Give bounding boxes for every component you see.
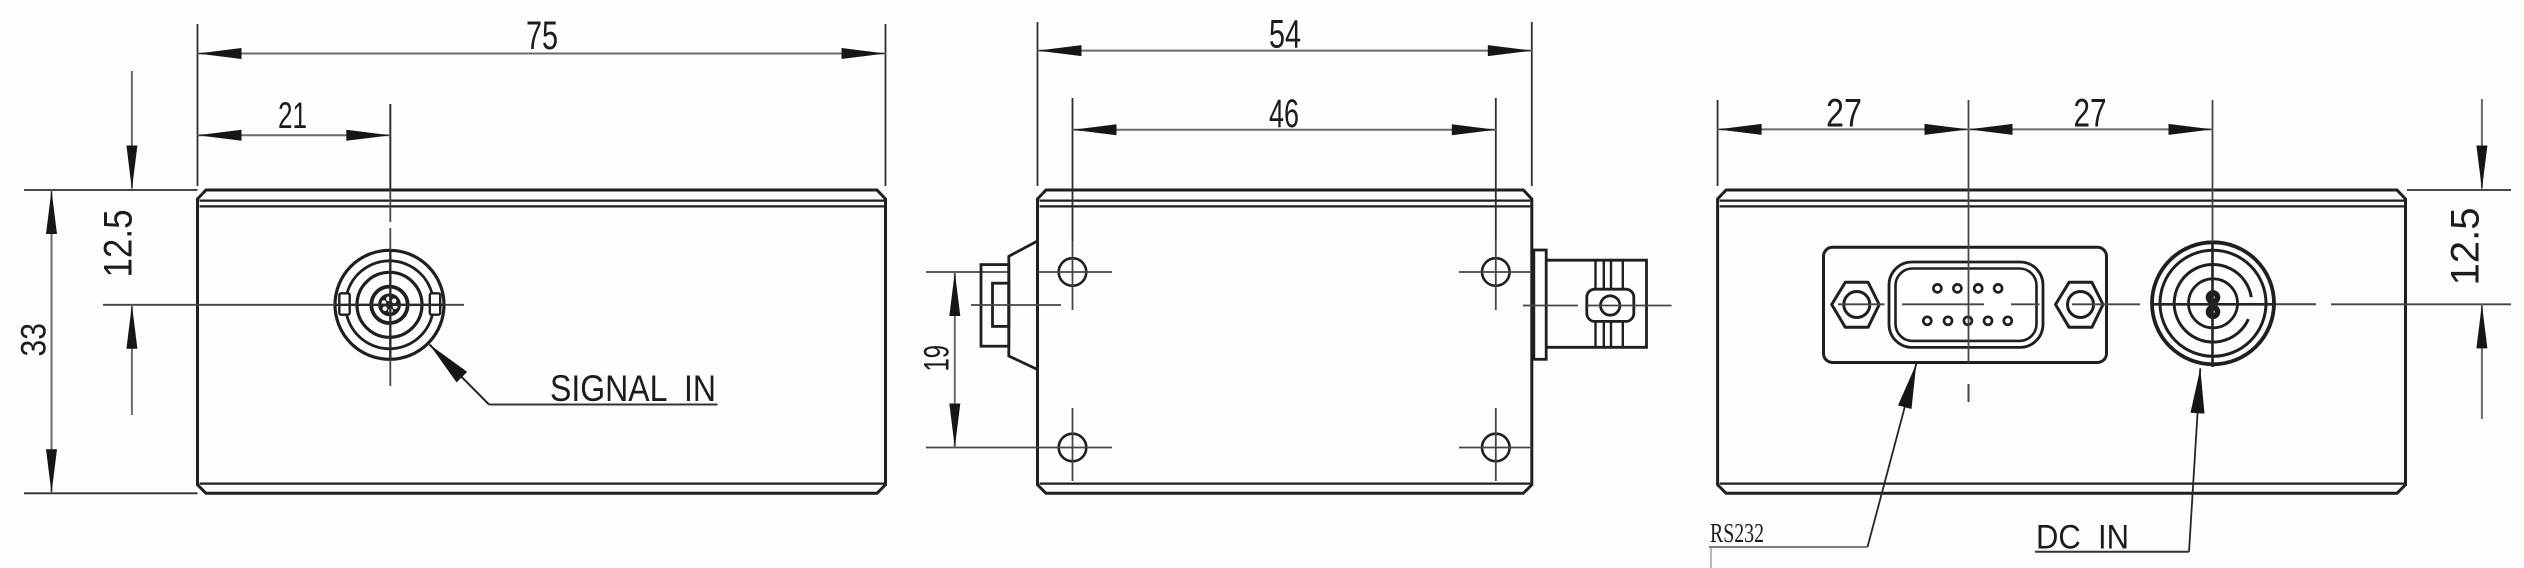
db9 screw hex right (2056, 282, 2104, 327)
dc jack ring 2 (2160, 250, 2266, 356)
svg-text:12.5: 12.5 (97, 210, 141, 278)
svg-text:12.5: 12.5 (2444, 208, 2488, 286)
hole centerline verticals (1073, 240, 1496, 481)
db9 dsub inner shell (1896, 269, 2037, 341)
front view lid seam upper line (200, 200, 885, 202)
rear view seam lower line (1720, 205, 2404, 207)
dc jack ring 3 with gap (2174, 264, 2251, 342)
DC IN label (2036, 519, 2129, 557)
dim 19 text (918, 345, 957, 372)
dc jack inner ring (2189, 279, 2238, 328)
dc jack pin bottom (2206, 305, 2221, 320)
RS232 leader arrowhead (1898, 364, 1916, 409)
dim 12.5 right top segment (2481, 99, 2483, 189)
dim 54 extension lines (1038, 22, 1532, 186)
bnc body outline (1546, 260, 1646, 347)
dim 21 arrow left (198, 130, 242, 141)
SIGNAL IN label underline (489, 404, 718, 406)
db9 vertical centerline (1968, 100, 1970, 402)
dc jack pin top (2206, 290, 2221, 305)
dim 12.5 left bottom segment (131, 305, 133, 415)
svg-text:RS232: RS232 (1710, 518, 1764, 548)
svg-text:SIGNAL IN: SIGNAL IN (550, 368, 716, 409)
signal connector outer ring (335, 250, 444, 359)
svg-text:21: 21 (278, 95, 307, 136)
signal connector ring 4 (371, 287, 407, 323)
db9 screw circle right (2068, 292, 2094, 318)
dim 75 arrow right (842, 48, 886, 59)
bottom view bottom seam line (1040, 483, 1531, 485)
signal connector ring 2 (346, 261, 434, 349)
dim 33 arrow top (46, 190, 57, 234)
svg-text:46: 46 (1269, 92, 1299, 136)
dim 12.5 left arrow up (126, 305, 137, 349)
dc jack outer ring (2152, 242, 2274, 364)
dim 33 extension line bottom (24, 492, 198, 494)
svg-text:33: 33 (15, 323, 54, 357)
dim 21 arrow right (346, 130, 390, 141)
dim 46 line (1073, 129, 1496, 131)
signal connector bayonet tab left (339, 293, 349, 314)
dim 12.5 right arrow up (2476, 304, 2487, 348)
dim 54 text (1269, 13, 1301, 57)
bottom view seam lower line (1040, 205, 1531, 207)
dim 75 line (198, 53, 886, 55)
hole centerline top horizontal (926, 271, 1112, 273)
rear view enclosure outline (1718, 190, 2406, 493)
dim 33 arrow bottom (46, 449, 57, 493)
signal connector center pins (378, 293, 401, 316)
dim 12.5 right bottom segment (2481, 304, 2483, 419)
dim 27b arrows (1969, 124, 2213, 135)
front view enclosure outline (198, 190, 886, 493)
db9 pins bottom row (1923, 317, 2012, 325)
DC IN label underline (2035, 551, 2189, 553)
db9 screw hex left (1832, 282, 1880, 327)
signal connector bayonet tab right (430, 293, 440, 314)
dim 19 line (954, 272, 956, 448)
mounting hole bottom-left (1059, 434, 1087, 462)
bnc bayonet boss (1587, 289, 1634, 321)
dim 21 extension line right (389, 104, 391, 190)
RS232 frame stub (1710, 547, 1712, 568)
rear view bottom seam line (1720, 483, 2404, 485)
side connector body rect (981, 265, 1009, 347)
dim 12.5 right top ext (2407, 189, 2511, 191)
svg-text:DC IN: DC IN (2036, 519, 2129, 557)
dim 21 line (198, 134, 391, 136)
RS232 label (1710, 518, 1764, 548)
bottom view enclosure outline (1038, 190, 1532, 493)
dim 12.5 right text (2444, 208, 2488, 286)
dim 75 extension line left (197, 24, 199, 186)
hole centerline bottom-right horizontal (1459, 447, 1532, 449)
db9 outer plate (1824, 247, 2107, 362)
rear horizontal centerline segments (1838, 303, 2140, 305)
bottom view seam upper line (1040, 200, 1531, 202)
dim 27 text b (2074, 92, 2107, 136)
signal connector ring 3 (357, 272, 422, 337)
RS232 label underline (1709, 546, 1868, 548)
bnc bayonet pin circle (1601, 296, 1620, 315)
SIGNAL IN label (550, 368, 716, 409)
svg-text:54: 54 (1269, 13, 1301, 57)
dc vertical centerline (2212, 100, 2214, 367)
bnc flange rect (1534, 250, 1546, 359)
svg-text:27: 27 (2074, 92, 2107, 136)
hole centerline bottom horizontal (926, 447, 1112, 449)
DC IN leader line (2189, 368, 2200, 552)
DC IN leader arrowhead (2191, 368, 2205, 413)
SIGNAL IN leader arrowhead (430, 345, 468, 383)
RS232 leader line (1868, 364, 1917, 547)
svg-text:27: 27 (1826, 92, 1862, 136)
dim 27 line b (1969, 128, 2213, 130)
dim 12.5 left text (97, 210, 141, 278)
dim 27 text a (1826, 92, 1862, 136)
dim 46 extension lines (1073, 98, 1496, 241)
dim 75 extension line right (885, 24, 887, 186)
dim 12.5 left arrow down (126, 146, 137, 190)
front view horizontal centerline (103, 304, 464, 306)
bnc slot verticals (1596, 260, 1623, 347)
db9 pins top row (1933, 284, 2002, 292)
svg-text:75: 75 (526, 14, 558, 58)
front view lid seam lower line (200, 205, 885, 207)
dim 75 text (526, 14, 558, 58)
db9 screw circle left (1844, 292, 1870, 318)
dim 46 arrows (1073, 124, 1496, 135)
dim 54 arrows (1038, 45, 1532, 56)
mounting hole bottom-right (1482, 434, 1510, 462)
dim 33 text (15, 323, 54, 357)
side connector taper (1009, 241, 1038, 370)
dim 12.5 left top segment (131, 71, 133, 189)
bnc centerline (1523, 305, 1672, 307)
dim 75 arrow left (198, 48, 242, 59)
dim 21 text (278, 95, 307, 136)
svg-text:19: 19 (918, 345, 957, 372)
dc horizontal centerline (2152, 303, 2511, 306)
dim 33 line (51, 190, 53, 493)
dim 27a arrows (1718, 124, 1969, 135)
dim 27 line a (1718, 128, 1969, 130)
side connector centerline (971, 304, 1061, 306)
front view vertical centerline (389, 104, 391, 386)
dim 33 extension line top (24, 189, 198, 191)
SIGNAL IN leader line (430, 345, 490, 405)
front view bottom seam line (200, 483, 885, 485)
db9 dsub outer shell (1889, 262, 2043, 347)
dim 19 arrows (949, 272, 960, 448)
side connector inner rect (993, 283, 1009, 326)
dim 12.5 right arrow down (2476, 146, 2487, 190)
hole centerline top-right horizontal (1459, 271, 1532, 273)
dim 27 extension left (1717, 100, 1719, 186)
dim 46 text (1269, 92, 1299, 136)
dim 54 line (1038, 50, 1532, 52)
mounting hole top-right (1482, 258, 1510, 286)
mounting hole top-left (1059, 258, 1087, 286)
rear view seam upper line (1720, 200, 2404, 202)
